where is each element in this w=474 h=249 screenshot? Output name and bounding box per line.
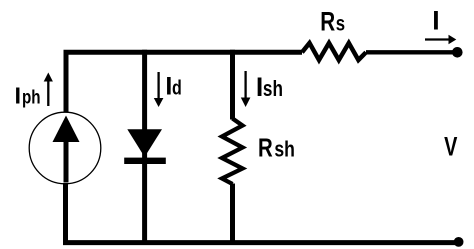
resistor Rs zigzag (302, 43, 366, 60)
arrow Id direction (157, 72, 159, 99)
wire top rail and upper left rail (66, 52, 302, 114)
arrow Iph direction (47, 79, 49, 106)
svg-text:Rs: Rs (320, 7, 345, 37)
arrow Ish direction (244, 71, 246, 98)
diode D triangle (127, 129, 162, 157)
svg-text:I: I (15, 82, 22, 108)
svg-text:V: V (444, 132, 458, 161)
terminal node top dot (452, 47, 463, 58)
svg-text:sh: sh (263, 77, 283, 102)
terminal node bottom dot (454, 237, 464, 247)
wire shunt branch lower (230, 184, 235, 243)
wire from Rs to output terminal (366, 50, 456, 54)
arrow I direction (425, 38, 449, 40)
svg-text:Rsh: Rsh (258, 134, 295, 163)
svg-text:I: I (432, 6, 439, 36)
current source circle (29, 112, 101, 184)
wire diode branch (142, 50, 147, 243)
wire shunt branch upper (230, 50, 235, 120)
diode cathode bar (124, 158, 166, 164)
svg-text:d: d (172, 77, 182, 99)
wire lower left rail and bottom rail (66, 183, 460, 243)
svg-text:ph: ph (22, 86, 41, 108)
current source arrow (64, 140, 69, 183)
resistor Rsh zigzag (222, 119, 243, 185)
